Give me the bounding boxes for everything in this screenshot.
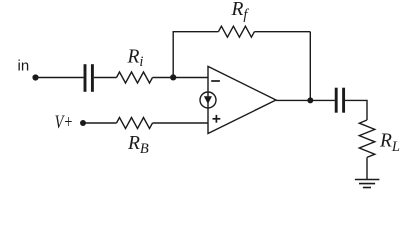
svg-text:Ri: Ri [127, 47, 144, 71]
label in [18, 57, 30, 74]
wire [309, 32, 311, 101]
resistor Ri [117, 72, 153, 83]
wire [276, 99, 335, 101]
wire [172, 32, 174, 78]
wire [94, 77, 117, 79]
plus [213, 115, 221, 123]
wire [153, 77, 209, 79]
wire [153, 122, 209, 124]
svg-text:Rf: Rf [231, 0, 250, 23]
op-amp U1 [208, 66, 276, 133]
label RL [379, 130, 400, 155]
capacitor C2 [336, 88, 343, 113]
wire [345, 100, 367, 120]
svg-text:RL: RL [379, 130, 400, 155]
node V+ [80, 120, 86, 126]
resistor RB [117, 118, 153, 129]
node in [32, 74, 38, 80]
resistor RL [359, 120, 375, 157]
minus [211, 80, 220, 82]
wire [36, 77, 84, 79]
svg-text:in: in [18, 57, 30, 74]
node output [307, 97, 313, 103]
wire [366, 157, 368, 179]
svg-text:RB: RB [127, 133, 149, 157]
resistor Rf [218, 26, 254, 37]
label RB [127, 133, 149, 157]
wire [173, 31, 219, 33]
label V+ [55, 112, 74, 133]
node A [170, 74, 176, 80]
label Rf [231, 0, 250, 23]
wire [254, 31, 310, 33]
svg-text:V+: V+ [55, 112, 74, 133]
label Ri [127, 47, 144, 71]
capacitor C1 [85, 64, 92, 92]
ground [355, 180, 380, 188]
wire [83, 122, 117, 124]
current source [200, 92, 216, 108]
